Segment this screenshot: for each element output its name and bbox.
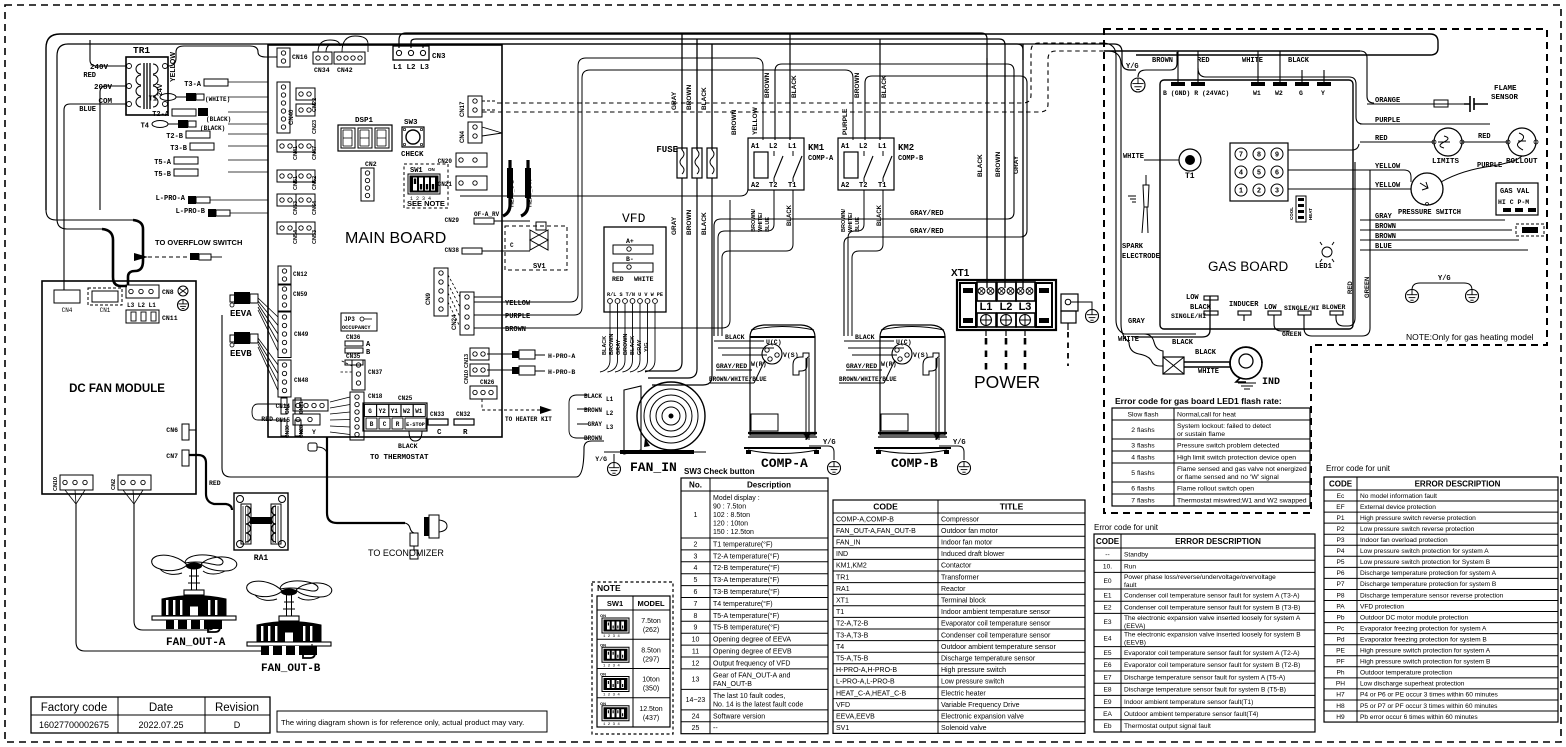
svg-text:CN16: CN16 bbox=[292, 54, 308, 61]
svg-text:T5-B temperature(°F): T5-B temperature(°F) bbox=[713, 624, 780, 632]
svg-text:L3 L2 L1: L3 L2 L1 bbox=[127, 302, 156, 309]
svg-text:Outdoor temperature protection: Outdoor temperature protection bbox=[1360, 670, 1452, 677]
svg-text:Outdoor ambient temperature se: Outdoor ambient temperature sensor bbox=[941, 644, 1056, 651]
svg-text:A+: A+ bbox=[626, 238, 634, 245]
svg-text:G: G bbox=[368, 408, 372, 415]
svg-text:Transformer: Transformer bbox=[941, 574, 980, 581]
svg-text:WHITE: WHITE bbox=[1198, 368, 1219, 376]
svg-text:CN32: CN32 bbox=[456, 411, 471, 418]
svg-text:GAS BOARD: GAS BOARD bbox=[1208, 259, 1289, 274]
svg-text:BROWN/: BROWN/ bbox=[751, 209, 757, 232]
svg-text:L1: L1 bbox=[606, 396, 614, 403]
svg-text:CN53: CN53 bbox=[312, 230, 318, 244]
svg-text:BLACK: BLACK bbox=[701, 212, 708, 235]
svg-text:CN48: CN48 bbox=[294, 377, 309, 384]
svg-text:GRAY: GRAY bbox=[671, 91, 678, 110]
svg-text:ELECTRODE: ELECTRODE bbox=[1122, 253, 1160, 261]
svg-text:P5 or P7 or PF occur 3 times w: P5 or P7 or PF occur 3 times within 60 m… bbox=[1360, 703, 1498, 710]
svg-text:CN2: CN2 bbox=[365, 161, 377, 168]
svg-text:10ton: 10ton bbox=[642, 677, 660, 684]
svg-text:T4 temperature(°F): T4 temperature(°F) bbox=[713, 600, 773, 608]
svg-text:BROWN: BROWN bbox=[584, 407, 602, 414]
svg-text:RED: RED bbox=[83, 72, 96, 80]
svg-text:BROWN: BROWN bbox=[764, 72, 771, 98]
svg-text:(EEVA): (EEVA) bbox=[1124, 623, 1146, 630]
svg-text:W1: W1 bbox=[415, 408, 423, 415]
svg-text:CN10: CN10 bbox=[464, 370, 470, 384]
svg-text:Indoor fan overload protection: Indoor fan overload protection bbox=[1360, 537, 1448, 544]
svg-text:CN4: CN4 bbox=[62, 307, 73, 314]
svg-text:2022.07.25: 2022.07.25 bbox=[138, 720, 183, 730]
svg-text:CN12: CN12 bbox=[293, 271, 308, 278]
svg-text:CN21: CN21 bbox=[438, 181, 453, 188]
svg-text:YELLOW: YELLOW bbox=[505, 300, 531, 308]
svg-text:CN14: CN14 bbox=[276, 403, 291, 410]
svg-text:T3-B: T3-B bbox=[170, 145, 188, 153]
svg-text:(WHITE): (WHITE) bbox=[205, 96, 230, 103]
svg-text:T2: T2 bbox=[859, 182, 867, 190]
svg-text:14~23: 14~23 bbox=[686, 697, 706, 704]
svg-text:COMP-A: COMP-A bbox=[808, 155, 834, 163]
svg-text:Error code for gas board LED1: Error code for gas board LED1 flash rate… bbox=[1115, 396, 1282, 406]
svg-text:BROWN: BROWN bbox=[1152, 57, 1173, 65]
svg-text:B: B bbox=[370, 421, 374, 428]
svg-text:H7: H7 bbox=[1336, 692, 1345, 699]
svg-text:Normal,call for heat: Normal,call for heat bbox=[1177, 411, 1236, 418]
svg-text:MAIN BOARD: MAIN BOARD bbox=[345, 230, 446, 247]
svg-text:HEAT_C-A: HEAT_C-A bbox=[528, 180, 534, 207]
svg-text:CN49: CN49 bbox=[294, 331, 309, 338]
svg-text:Outdoor ambient temperature se: Outdoor ambient temperature sensor fault… bbox=[1124, 711, 1259, 718]
svg-text:BROWN/: BROWN/ bbox=[841, 209, 847, 232]
svg-text:P6: P6 bbox=[1336, 570, 1344, 577]
svg-text:PF: PF bbox=[1336, 659, 1344, 666]
svg-text:L2: L2 bbox=[1000, 301, 1013, 313]
svg-text:6 flashs: 6 flashs bbox=[1131, 485, 1155, 492]
svg-text:12.5ton: 12.5ton bbox=[639, 706, 662, 713]
svg-text:No.: No. bbox=[689, 480, 702, 489]
svg-text:T4: T4 bbox=[141, 123, 149, 131]
svg-text:U(C): U(C) bbox=[766, 339, 782, 346]
svg-text:PA: PA bbox=[1336, 603, 1345, 610]
svg-text:BLACK: BLACK bbox=[877, 204, 883, 226]
svg-text:Outdoor fan motor: Outdoor fan motor bbox=[941, 528, 998, 535]
svg-text:T2-A,T2-B: T2-A,T2-B bbox=[836, 621, 869, 628]
svg-text:HEAT_C-A,HEAT_C-B: HEAT_C-A,HEAT_C-B bbox=[836, 690, 906, 697]
svg-text:5: 5 bbox=[1257, 170, 1261, 178]
svg-text:1: 1 bbox=[694, 512, 698, 519]
svg-text:1 2 3 4: 1 2 3 4 bbox=[603, 635, 620, 639]
svg-text:Indoor ambient temperature sen: Indoor ambient temperature sensor fault(… bbox=[1124, 699, 1253, 706]
svg-text:E4: E4 bbox=[1103, 636, 1111, 643]
svg-text:6: 6 bbox=[694, 589, 698, 596]
svg-text:EEVA,EEVB: EEVA,EEVB bbox=[836, 713, 875, 720]
svg-text:BLACK: BLACK bbox=[787, 204, 793, 226]
svg-text:RED: RED bbox=[1478, 133, 1491, 141]
svg-text:CN59: CN59 bbox=[293, 291, 308, 298]
svg-text:IND: IND bbox=[1262, 377, 1280, 388]
svg-text:XT1: XT1 bbox=[836, 597, 849, 604]
svg-text:BLACK: BLACK bbox=[791, 75, 798, 98]
svg-text:WHITE: WHITE bbox=[1123, 153, 1144, 161]
svg-text:B-: B- bbox=[626, 256, 634, 263]
svg-text:Y/G: Y/G bbox=[1438, 275, 1451, 283]
svg-text:Discharge temperature protecti: Discharge temperature protection for sys… bbox=[1360, 581, 1497, 588]
svg-text:5 flashs: 5 flashs bbox=[1131, 470, 1155, 477]
svg-text:Evaporator freezing protection: Evaporator freezing protection for syste… bbox=[1360, 625, 1487, 632]
svg-text:Y1: Y1 bbox=[391, 408, 399, 415]
svg-text:H9: H9 bbox=[1336, 714, 1345, 721]
svg-text:CN35: CN35 bbox=[346, 353, 361, 360]
svg-text:CN8: CN8 bbox=[162, 289, 174, 296]
svg-text:W1: W1 bbox=[1253, 90, 1261, 97]
svg-text:GRAY/RED: GRAY/RED bbox=[910, 228, 944, 236]
svg-text:CN26: CN26 bbox=[480, 379, 495, 386]
svg-text:102 : 8.5ton: 102 : 8.5ton bbox=[713, 512, 750, 519]
svg-text:High pressure switch protecti: High pressure switch protection for syst… bbox=[1360, 648, 1491, 655]
svg-text:ON: ON bbox=[600, 701, 606, 706]
svg-text:W2: W2 bbox=[1275, 90, 1283, 97]
svg-text:3: 3 bbox=[1275, 188, 1279, 196]
svg-text:E6: E6 bbox=[1103, 662, 1111, 669]
svg-text:E2: E2 bbox=[1103, 605, 1111, 612]
svg-text:COM: COM bbox=[98, 98, 112, 106]
svg-text:T5-A,T5-B: T5-A,T5-B bbox=[836, 655, 869, 662]
svg-text:3: 3 bbox=[694, 553, 698, 560]
svg-text:Factory code: Factory code bbox=[41, 702, 107, 714]
svg-text:TR1: TR1 bbox=[836, 574, 849, 581]
svg-text:CN17: CN17 bbox=[460, 101, 466, 117]
svg-text:Software version: Software version bbox=[713, 713, 765, 720]
svg-text:X: X bbox=[299, 429, 303, 436]
svg-text:6: 6 bbox=[1275, 170, 1279, 178]
svg-text:CN33: CN33 bbox=[430, 411, 445, 418]
svg-text:FUSE: FUSE bbox=[656, 145, 678, 155]
svg-text:RED: RED bbox=[1197, 57, 1210, 65]
svg-text:Gear of FAN_OUT-A and: Gear of FAN_OUT-A and bbox=[713, 672, 791, 679]
svg-text:SV1: SV1 bbox=[836, 725, 849, 732]
svg-text:RA1: RA1 bbox=[836, 586, 850, 593]
svg-text:Output frequency of VFD: Output frequency of VFD bbox=[713, 660, 790, 667]
svg-text:Condenser coil temperature sen: Condenser coil temperature sensor fault … bbox=[1124, 605, 1300, 612]
svg-text:CN2: CN2 bbox=[111, 479, 117, 490]
svg-text:Low pressure switch: Low pressure switch bbox=[941, 679, 1005, 686]
svg-text:L-PRO-A,L-PRO-B: L-PRO-A,L-PRO-B bbox=[836, 679, 895, 686]
svg-text:XT1: XT1 bbox=[951, 268, 970, 279]
svg-text:Terminal block: Terminal block bbox=[941, 597, 986, 604]
svg-text:CHECK: CHECK bbox=[401, 151, 424, 159]
svg-text:E8: E8 bbox=[1103, 687, 1111, 694]
svg-text:Run: Run bbox=[1124, 564, 1136, 571]
svg-text:T3-A: T3-A bbox=[184, 81, 202, 89]
svg-text:HEAT_C-B: HEAT_C-B bbox=[510, 180, 516, 207]
svg-text:Evaporator coil temperature se: Evaporator coil temperature sensor bbox=[941, 621, 1051, 628]
svg-text:Y2: Y2 bbox=[379, 408, 387, 415]
svg-text:BLUE: BLUE bbox=[765, 217, 771, 232]
svg-text:COMP-A: COMP-A bbox=[761, 456, 808, 471]
svg-text:BLACK: BLACK bbox=[630, 336, 636, 355]
svg-text:FAN_OUT-B: FAN_OUT-B bbox=[261, 663, 321, 675]
svg-text:YELLOW: YELLOW bbox=[1375, 163, 1401, 171]
svg-text:VFD protection: VFD protection bbox=[1360, 603, 1404, 610]
svg-text:ERROR DESCRIPTION: ERROR DESCRIPTION bbox=[1415, 479, 1501, 488]
svg-text:A2: A2 bbox=[841, 182, 849, 190]
svg-text:GAS VAL: GAS VAL bbox=[1500, 188, 1529, 196]
svg-text:GRAY/RED: GRAY/RED bbox=[846, 363, 877, 370]
svg-text:CN36: CN36 bbox=[346, 334, 361, 341]
svg-text:(350): (350) bbox=[643, 686, 659, 693]
svg-text:RED: RED bbox=[209, 480, 221, 487]
svg-text:1 2 3 4: 1 2 3 4 bbox=[603, 694, 620, 698]
svg-text:7 flashs: 7 flashs bbox=[1131, 497, 1155, 504]
svg-text:Reactor: Reactor bbox=[941, 586, 966, 593]
svg-text:SW3 Check button: SW3 Check button bbox=[684, 467, 755, 476]
svg-text:G: G bbox=[1299, 90, 1303, 97]
svg-text:BLACK: BLACK bbox=[701, 87, 708, 110]
svg-text:P3: P3 bbox=[1336, 537, 1344, 544]
svg-text:OCCUPANCY: OCCUPANCY bbox=[342, 325, 371, 331]
svg-text:T1: T1 bbox=[836, 609, 844, 616]
svg-text:TO OVERFLOW SWITCH: TO OVERFLOW SWITCH bbox=[155, 238, 242, 247]
svg-text:7.5ton: 7.5ton bbox=[641, 618, 661, 625]
svg-text:RED: RED bbox=[261, 416, 273, 423]
svg-text:Electric heater: Electric heater bbox=[941, 690, 986, 697]
svg-text:DSP1: DSP1 bbox=[355, 117, 374, 125]
svg-text:Y/G: Y/G bbox=[644, 343, 650, 352]
svg-text:H-PRO-B: H-PRO-B bbox=[548, 369, 575, 376]
svg-text:VFD: VFD bbox=[836, 702, 850, 709]
svg-text:25: 25 bbox=[692, 725, 700, 732]
svg-text:8: 8 bbox=[1257, 152, 1261, 160]
svg-text:ERROR DESCRIPTION: ERROR DESCRIPTION bbox=[1175, 537, 1261, 546]
svg-text:Pd: Pd bbox=[1336, 636, 1344, 643]
svg-text:T3-B temperature(°F): T3-B temperature(°F) bbox=[713, 588, 780, 596]
svg-text:BLUE: BLUE bbox=[855, 217, 861, 232]
svg-text:24: 24 bbox=[692, 713, 700, 720]
svg-text:CN21: CN21 bbox=[299, 401, 305, 414]
svg-text:DC FAN MODULE: DC FAN MODULE bbox=[69, 383, 165, 395]
svg-text:CN4: CN4 bbox=[460, 130, 466, 143]
svg-text:R: R bbox=[396, 421, 400, 428]
svg-text:P4 or P6 or PE occur 3 times w: P4 or P6 or PE occur 3 times within 60 m… bbox=[1360, 692, 1498, 699]
svg-text:The last 10 fault codes,: The last 10 fault codes, bbox=[713, 693, 785, 700]
svg-text:L1 L2 L3: L1 L2 L3 bbox=[393, 64, 430, 72]
svg-text:GRAY: GRAY bbox=[588, 421, 603, 428]
svg-text:System lockout: failed to dete: System lockout: failed to detect bbox=[1177, 423, 1271, 430]
svg-text:Model display :: Model display : bbox=[713, 495, 760, 502]
svg-text:120 : 10ton: 120 : 10ton bbox=[713, 521, 748, 528]
svg-text:BLACK: BLACK bbox=[1195, 349, 1217, 357]
svg-text:(437): (437) bbox=[643, 715, 659, 722]
svg-text:T2-A temperature(°F): T2-A temperature(°F) bbox=[713, 552, 779, 560]
svg-text:BLACK: BLACK bbox=[725, 334, 745, 341]
svg-text:Ph: Ph bbox=[1336, 670, 1344, 677]
svg-text:YELLOW: YELLOW bbox=[170, 52, 177, 82]
svg-text:PRESSURE SWITCH: PRESSURE SWITCH bbox=[1398, 209, 1461, 217]
svg-text:PH: PH bbox=[1336, 681, 1345, 688]
svg-text:L1: L1 bbox=[878, 143, 886, 151]
svg-text:T1: T1 bbox=[788, 182, 796, 190]
svg-text:SENSOR: SENSOR bbox=[1491, 94, 1519, 102]
svg-text:CN3: CN3 bbox=[432, 53, 446, 61]
svg-text:GRAY: GRAY bbox=[1128, 318, 1146, 326]
svg-text:Low pressure switch protectio: Low pressure switch protection for syste… bbox=[1360, 548, 1489, 555]
svg-text:BLACK: BLACK bbox=[1172, 339, 1194, 347]
svg-text:A1: A1 bbox=[841, 143, 849, 151]
svg-text:Flame rollout switch open: Flame rollout switch open bbox=[1177, 485, 1254, 492]
svg-text:WHITE/: WHITE/ bbox=[848, 212, 854, 232]
svg-text:GRAY/RED: GRAY/RED bbox=[716, 363, 747, 370]
svg-text:U(C): U(C) bbox=[896, 339, 912, 346]
svg-text:T1: T1 bbox=[1185, 172, 1195, 181]
svg-text:P8: P8 bbox=[1336, 592, 1344, 599]
svg-text:Discharge temperature protecti: Discharge temperature protection for sys… bbox=[1360, 570, 1497, 577]
svg-text:R: R bbox=[463, 429, 468, 437]
svg-text:CN6: CN6 bbox=[166, 427, 178, 434]
svg-text:Power phase loss/reverse/under: Power phase loss/reverse/undervoltage/ov… bbox=[1124, 574, 1276, 581]
svg-text:L2: L2 bbox=[859, 143, 867, 151]
svg-text:8.5ton: 8.5ton bbox=[641, 647, 661, 654]
svg-text:T2-B temperature(°F): T2-B temperature(°F) bbox=[713, 564, 780, 572]
svg-text:7: 7 bbox=[1239, 152, 1243, 160]
svg-text:H-PRO-A: H-PRO-A bbox=[548, 353, 575, 360]
svg-text:FAN_IN: FAN_IN bbox=[836, 539, 861, 546]
svg-text:BLACK: BLACK bbox=[584, 393, 602, 400]
svg-text:9: 9 bbox=[1275, 152, 1279, 160]
svg-text:The electronic expansion valve: The electronic expansion valve inserted … bbox=[1124, 632, 1301, 639]
svg-text:A2: A2 bbox=[751, 182, 759, 190]
svg-text:BLUE: BLUE bbox=[79, 106, 96, 114]
svg-text:Compressor: Compressor bbox=[941, 516, 980, 523]
svg-text:EF: EF bbox=[1336, 504, 1344, 511]
svg-text:Opening degree of EEVB: Opening degree of EEVB bbox=[713, 649, 792, 656]
svg-text:D: D bbox=[234, 720, 241, 730]
svg-text:CN30: CN30 bbox=[285, 425, 291, 438]
svg-text:12: 12 bbox=[692, 660, 700, 667]
svg-text:TO THERMOSTAT: TO THERMOSTAT bbox=[370, 454, 429, 462]
svg-text:BROWN: BROWN bbox=[686, 84, 693, 110]
svg-text:CN10: CN10 bbox=[53, 477, 59, 491]
svg-text:T5-B: T5-B bbox=[154, 171, 172, 179]
svg-text:No. 14 is the latest fault cod: No. 14 is the latest fault code bbox=[713, 701, 803, 708]
svg-text:High pressure switch: High pressure switch bbox=[941, 667, 1006, 674]
svg-text:fault: fault bbox=[1124, 582, 1137, 589]
svg-text:Indoor fan motor: Indoor fan motor bbox=[941, 539, 993, 546]
svg-text:--: -- bbox=[713, 725, 718, 732]
svg-text:T4: T4 bbox=[836, 644, 844, 651]
svg-text:Y/G: Y/G bbox=[1126, 63, 1139, 71]
svg-text:4: 4 bbox=[1239, 170, 1243, 178]
svg-text:L3: L3 bbox=[1019, 301, 1032, 313]
svg-text:GRAY/RED: GRAY/RED bbox=[910, 210, 944, 218]
svg-text:BROWN: BROWN bbox=[995, 151, 1002, 177]
svg-text:Y: Y bbox=[1321, 90, 1325, 97]
svg-text:High pressure switch protecti: High pressure switch protection for syst… bbox=[1360, 659, 1491, 666]
svg-text:CN47: CN47 bbox=[312, 146, 318, 160]
svg-text:P4: P4 bbox=[1336, 548, 1344, 555]
svg-text:Pb error occur 6 times within: Pb error occur 6 times within 60 minutes bbox=[1360, 714, 1478, 721]
svg-text:T5-A: T5-A bbox=[154, 159, 172, 167]
svg-text:Eb: Eb bbox=[1103, 723, 1111, 730]
svg-text:CN9: CN9 bbox=[426, 292, 432, 305]
svg-text:PURPLE: PURPLE bbox=[1477, 162, 1502, 170]
svg-text:Flame sensed and gas valve not: Flame sensed and gas valve not energized bbox=[1177, 466, 1307, 473]
svg-text:ON: ON bbox=[600, 642, 606, 647]
svg-text:EEVA: EEVA bbox=[230, 309, 252, 319]
svg-text:Evaporator freezing protection: Evaporator freezing protection for syste… bbox=[1360, 636, 1487, 643]
svg-text:TO HEATER KIT: TO HEATER KIT bbox=[505, 416, 552, 423]
svg-text:240V: 240V bbox=[90, 64, 109, 72]
svg-text:L1: L1 bbox=[788, 143, 796, 151]
svg-text:L2: L2 bbox=[769, 143, 777, 151]
svg-text:L-PRO-A: L-PRO-A bbox=[156, 195, 186, 203]
svg-text:KM2: KM2 bbox=[898, 143, 914, 153]
svg-text:L2: L2 bbox=[606, 410, 614, 417]
svg-text:(262): (262) bbox=[643, 627, 659, 634]
svg-text:IND: IND bbox=[836, 551, 848, 558]
svg-text:Ec: Ec bbox=[1337, 493, 1345, 500]
svg-text:L1: L1 bbox=[980, 301, 993, 313]
svg-text:FAN_OUT-A,FAN_OUT-B: FAN_OUT-A,FAN_OUT-B bbox=[836, 528, 916, 535]
svg-text:High limit switch protection d: High limit switch protection device open bbox=[1177, 454, 1296, 461]
svg-text:CN15: CN15 bbox=[276, 417, 291, 424]
svg-text:RED: RED bbox=[1348, 281, 1354, 294]
svg-text:4: 4 bbox=[694, 565, 698, 572]
svg-text:--: -- bbox=[1105, 551, 1109, 558]
svg-text:E5: E5 bbox=[1103, 650, 1111, 657]
svg-text:Revision: Revision bbox=[215, 702, 259, 714]
svg-text:CN52: CN52 bbox=[312, 176, 318, 190]
svg-text:Induced draft blower: Induced draft blower bbox=[941, 551, 1005, 558]
svg-text:T5-A temperature(°F): T5-A temperature(°F) bbox=[713, 612, 779, 620]
svg-text:CN24: CN24 bbox=[452, 314, 458, 330]
svg-text:9: 9 bbox=[694, 625, 698, 632]
svg-text:8: 8 bbox=[694, 613, 698, 620]
svg-text:The electronic expansion valve: The electronic expansion valve inserted … bbox=[1124, 615, 1301, 622]
svg-text:CN11: CN11 bbox=[162, 315, 178, 322]
svg-text:H-PRO-A,H-PRO-B: H-PRO-A,H-PRO-B bbox=[836, 667, 897, 674]
svg-text:R/L S T/N U V W PE: R/L S T/N U V W PE bbox=[607, 292, 663, 298]
svg-text:BLACK: BLACK bbox=[881, 75, 888, 98]
svg-text:High pressure switch reverse: High pressure switch reverse protection bbox=[1360, 515, 1476, 522]
svg-text:1 2 3 4: 1 2 3 4 bbox=[603, 723, 620, 727]
svg-text:T2-B: T2-B bbox=[166, 133, 184, 141]
svg-text:NOTE: NOTE bbox=[597, 583, 621, 593]
svg-text:Pb: Pb bbox=[1336, 614, 1344, 621]
svg-text:Evaporator coil temperature se: Evaporator coil temperature sensor fault… bbox=[1124, 662, 1300, 669]
svg-text:4 flashs: 4 flashs bbox=[1131, 454, 1155, 461]
svg-text:(BLACK): (BLACK) bbox=[206, 116, 231, 123]
svg-text:Discharge temperature sensor f: Discharge temperature sensor fault for s… bbox=[1124, 687, 1286, 694]
svg-text:Description: Description bbox=[747, 480, 791, 489]
svg-text:P5: P5 bbox=[1336, 559, 1344, 566]
svg-text:Thermostat output signal fault: Thermostat output signal fault bbox=[1124, 723, 1211, 730]
svg-text:Low pressure switch reverse p: Low pressure switch reverse protection bbox=[1360, 526, 1475, 533]
svg-text:2: 2 bbox=[694, 541, 698, 548]
svg-text:2: 2 bbox=[1257, 188, 1261, 196]
svg-text:E9: E9 bbox=[1103, 699, 1111, 706]
svg-text:5: 5 bbox=[694, 577, 698, 584]
svg-text:BLOWER: BLOWER bbox=[1322, 304, 1346, 311]
svg-text:WHITE: WHITE bbox=[1242, 57, 1263, 65]
svg-text:EA: EA bbox=[1103, 711, 1112, 718]
svg-text:Low discharge superheat protec: Low discharge superheat protection bbox=[1360, 681, 1465, 688]
svg-text:C: C bbox=[510, 242, 514, 249]
svg-text:CN25: CN25 bbox=[398, 395, 413, 402]
svg-text:T3-A,T3-B: T3-A,T3-B bbox=[836, 632, 869, 639]
svg-text:Opening degree of EEVA: Opening degree of EEVA bbox=[713, 637, 791, 644]
svg-text:PE: PE bbox=[1336, 648, 1345, 655]
